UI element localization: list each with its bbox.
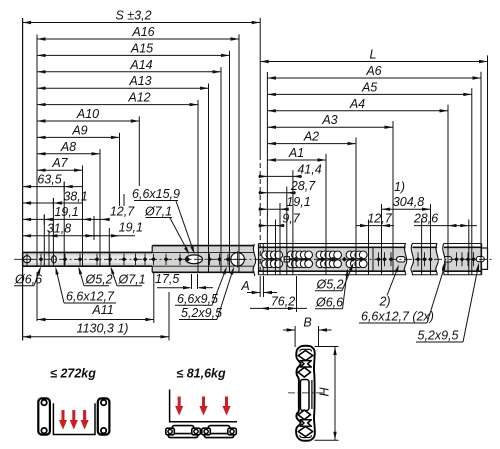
extension line A2 right x356: [355, 137, 357, 274]
ball bearing capsule 2b: [346, 251, 367, 268]
left icon red arrow 1: [59, 410, 67, 430]
svg-text:6,6x9,5: 6,6x9,5: [177, 292, 218, 306]
svg-text:6,6x12,7 (2x): 6,6x12,7 (2x): [361, 310, 434, 324]
extension line A14 right x221: [220, 67, 222, 272]
dimension 19,1 right stack: [258, 195, 310, 211]
dimension A11: [37, 303, 154, 321]
slot 6,6x15,9 in middle section: [185, 255, 202, 264]
extension line 304,8 right tick x430.5: [430, 204, 432, 275]
extension line 9,7 right x275.5: [275, 220, 277, 275]
section H extension bottom: [315, 439, 339, 441]
rail outer section top edge: [259, 243, 482, 245]
svg-text:A8: A8: [60, 140, 76, 154]
svg-text:A16: A16: [131, 25, 154, 39]
label O7,1 upper with leader to slot hole: [144, 205, 189, 255]
svg-text:6,6x15,9: 6,6x15,9: [132, 187, 180, 201]
dimension 19,1 mid-left: [85, 221, 143, 238]
dimension 17,5 below rail: [155, 272, 213, 289]
dimension A4: [267, 97, 448, 113]
dimension A1: [267, 146, 326, 162]
middle section rivet holes: [151, 254, 230, 265]
right icon red arrow 2: [199, 397, 207, 416]
rail middle section top edge: [152, 245, 254, 247]
rail outer left edge: [258, 244, 260, 275]
hole end circle O6,6 with cross: [22, 253, 33, 265]
svg-text:A2: A2: [303, 130, 319, 144]
rail middle inner line top: [152, 251, 254, 253]
dimension A (gap): [240, 279, 277, 294]
label 6,6x15,9 with leader to slot: [132, 187, 194, 254]
rail capsule terminator x373: [372, 247, 374, 271]
extension tick below rail x153.8: [153, 273, 155, 323]
extension line 28,7 right x286.8: [286, 187, 288, 275]
dimension A3: [267, 113, 393, 129]
section H dimension: [318, 347, 337, 441]
rail left end edge: [22, 252, 24, 266]
extension line 63,5 tick x64.2: [63, 182, 65, 267]
svg-text:Ø5,2: Ø5,2: [85, 273, 113, 287]
rail outer member section (right): [259, 247, 482, 271]
dimension 1130,3 1): [23, 322, 169, 339]
svg-text:9,7: 9,7: [282, 212, 300, 226]
slot 6,6x12,7 at x401: [397, 257, 406, 262]
extension tick below rail x169: [168, 292, 170, 341]
dimension A9: [37, 123, 120, 139]
svg-text:A9: A9: [71, 123, 87, 137]
svg-text:Ø5,2: Ø5,2: [316, 278, 344, 292]
footnote 2) with leader: [378, 265, 399, 309]
rail end lug: [482, 248, 488, 269]
svg-text:31,8: 31,8: [47, 221, 71, 235]
rail left section bottom edge: [23, 265, 153, 267]
rail middle section bottom edge: [152, 271, 254, 273]
left load icon right bracket: [98, 398, 110, 434]
label 6,6x12,7 (2x) with leader: [359, 262, 446, 323]
inner section rivet holes: [39, 254, 148, 265]
svg-text:A12: A12: [127, 91, 150, 105]
extension line A7 right x82.5: [82, 166, 84, 267]
rail outer section bottom edge: [259, 274, 482, 276]
extension line A13 right x208.5: [208, 84, 210, 273]
dimension A16: [37, 25, 239, 41]
svg-text:12,7: 12,7: [367, 212, 392, 226]
svg-text:A7: A7: [51, 156, 68, 170]
extension line x260.2 dashed part: [259, 155, 261, 275]
extension line tick x94: [93, 216, 95, 240]
dimension 19,1 left: [23, 205, 83, 225]
slot 6,6x12,7 at x447.5: [443, 257, 452, 262]
outer member rivet holes: [376, 252, 476, 266]
svg-text:63,5: 63,5: [37, 172, 61, 186]
dimension 28,7: [258, 179, 316, 195]
dimension A10: [37, 107, 139, 123]
extension line 19,1 tick x44.3: [43, 215, 45, 267]
hole O7,1 circle with cross in middle section: [230, 251, 246, 267]
svg-text:Ø6,6: Ø6,6: [315, 296, 343, 310]
dimension 304,8: [382, 195, 431, 211]
extension line rail left end x23: [22, 18, 24, 266]
svg-text:2): 2): [378, 295, 390, 309]
svg-text:A11: A11: [91, 303, 113, 317]
svg-text:A4: A4: [349, 97, 365, 111]
dimension 9,7: [258, 212, 300, 228]
extension line 12,7 left tick x368.5: [368, 220, 370, 275]
svg-text:S ±3,2: S ±3,2: [115, 9, 151, 23]
right icon red arrow 1: [175, 397, 183, 416]
svg-text:6,6x12,7: 6,6x12,7: [66, 290, 115, 304]
cross-section profile: [296, 346, 315, 441]
label 6,6x12,7 with leader: [55, 267, 116, 304]
label 6,6x9,5 with leader: [175, 267, 227, 306]
extension line S right / L left x260.2 solid part: [259, 18, 261, 155]
dimension 63,5: [23, 172, 83, 191]
rail left section top edge: [23, 251, 153, 253]
extension line x37: [36, 35, 38, 267]
rail inner member section (left): [23, 252, 153, 266]
svg-text:A14: A14: [129, 58, 152, 72]
rail centreline dash-dot: [14, 258, 494, 260]
dimension A2: [267, 130, 356, 146]
extension line below rail x37: [36, 272, 38, 321]
extension line below rail x23: [22, 266, 24, 340]
section H extension top: [315, 346, 339, 348]
ball bearing capsule 1b: [287, 251, 312, 268]
svg-text:19,1: 19,1: [54, 205, 78, 219]
svg-text:28,7: 28,7: [290, 179, 316, 193]
extension line A4 right x448: [447, 105, 449, 275]
rail member edge inside outer section x263.2: [262, 244, 264, 275]
rail break at x409: [404, 243, 413, 276]
ball bearing capsule 1a: [262, 251, 283, 268]
dimension L: [260, 48, 487, 64]
label O6,6 right with leader: [315, 268, 348, 309]
extension line A5 right x471.8: [471, 88, 473, 275]
rail middle inner line bottom: [152, 265, 254, 267]
svg-text:≤ 272kg: ≤ 272kg: [50, 367, 96, 381]
svg-text:12,7: 12,7: [110, 205, 135, 219]
extension ticks for A gap: [259, 276, 261, 297]
dimension 28,6: [413, 212, 477, 228]
extension line 31,8 tick x49: [48, 231, 50, 266]
dimension A8: [37, 140, 100, 156]
extension line A12 right x198: [197, 100, 199, 272]
svg-text:19,1: 19,1: [119, 221, 143, 235]
left load icon left bracket: [38, 398, 50, 434]
left icon red arrow 3: [81, 410, 89, 430]
extension line 28,6 right tick x468.8: [468, 220, 470, 275]
label 5,2x9,5 left with leader: [179, 267, 234, 320]
svg-text:28,6: 28,6: [413, 212, 438, 226]
svg-text:5,2x9,5: 5,2x9,5: [181, 306, 222, 320]
svg-text:H: H: [318, 387, 332, 397]
svg-text:A15: A15: [130, 41, 153, 55]
dimension 38,1: [23, 189, 88, 208]
extension line 304,8 left tick x381.5: [381, 204, 383, 275]
rail middle section left edges: [151, 246, 153, 253]
bearing square window: [284, 257, 289, 262]
dimension 41,4: [258, 162, 321, 178]
svg-text:1130,3 1): 1130,3 1): [77, 322, 129, 336]
dimension A14: [37, 58, 221, 74]
diamond dot between capsule 2a 2b: [342, 257, 347, 262]
extension tick x124: [123, 194, 125, 206]
rail outer inner line bottom: [259, 270, 482, 272]
svg-text:1): 1): [394, 180, 405, 194]
dimension 31,8: [23, 221, 100, 240]
dimension A13: [37, 74, 209, 90]
right icon red arrow 3: [222, 397, 230, 416]
rail middle member section: [152, 246, 254, 273]
dimension 12,7 right (outside arrows): [356, 212, 394, 228]
rail inner member centre strip: [23, 255, 153, 263]
extension line L right x487.5: [487, 55, 489, 248]
rail outer inner line top: [259, 246, 482, 248]
rail outer right end edge: [481, 244, 483, 275]
svg-text:41,4: 41,4: [297, 162, 321, 176]
extension line 38,1 tick x53.4: [52, 198, 54, 266]
extension line 41,4 right x292.9: [292, 170, 294, 275]
extension tick x296.5 below rail: [296, 276, 298, 312]
svg-text:17,5: 17,5: [155, 272, 179, 286]
left load icon U channel: [53, 403, 95, 434]
right load icon bracket 1: [166, 426, 201, 438]
extension line A8 right x100: [99, 149, 101, 266]
dimension A12: [37, 91, 198, 107]
svg-text:38,1: 38,1: [63, 189, 87, 203]
svg-text:≤ 81,6kg: ≤ 81,6kg: [176, 367, 226, 381]
extension line A-dims left x267.4: [266, 72, 268, 275]
dimension S +-3,2: [23, 9, 261, 25]
svg-text:A10: A10: [76, 107, 99, 121]
left icon red arrow 2: [70, 410, 78, 430]
svg-text:A5: A5: [361, 80, 377, 94]
right load icon bracket 2: [202, 426, 237, 438]
svg-text:Ø7,1: Ø7,1: [144, 205, 172, 219]
right load icon angle: [170, 390, 237, 422]
label O6,6 with leader: [14, 266, 42, 286]
svg-text:A6: A6: [365, 64, 381, 78]
dimension A7: [37, 156, 83, 172]
label O5,2 with leader: [79, 266, 113, 286]
extension line A9 right x119.5: [119, 133, 121, 206]
extension line 19,1 right x280: [279, 203, 281, 275]
extension line A15 right x229.5: [229, 51, 231, 273]
svg-text:Ø7,1: Ø7,1: [118, 273, 146, 287]
label O7,1 lower with leader: [111, 266, 146, 286]
dimension A5: [267, 80, 471, 96]
extension line A6 right x481: [480, 72, 482, 275]
slot hole at x54: [52, 256, 57, 263]
extension line A16 right x239: [238, 34, 240, 272]
ball bearing capsule 2a: [316, 251, 341, 268]
rail break curve at x254.5: [253, 244, 256, 276]
slot 5,2x9,5 at x480: [476, 257, 484, 262]
section B dimension: [283, 316, 332, 348]
svg-text:B: B: [303, 316, 311, 330]
extension line A3 right x393: [392, 121, 394, 275]
svg-text:L: L: [370, 48, 377, 62]
dimension 76,2: [250, 294, 307, 310]
extension line A1 right x326: [325, 154, 327, 275]
svg-text:304,8: 304,8: [393, 195, 424, 209]
svg-text:A3: A3: [321, 113, 337, 127]
dimension A15: [37, 41, 230, 57]
dimension A6: [267, 64, 481, 80]
section centreline: [288, 392, 324, 394]
svg-text:5,2x9,5: 5,2x9,5: [418, 329, 459, 343]
extension line A10 right x139.3: [138, 116, 140, 186]
svg-text:A1: A1: [288, 146, 304, 160]
extension line tick x109.3: [108, 228, 110, 266]
extension tick x421.6: [421, 220, 423, 275]
label O5,2 right with leader: [315, 263, 354, 292]
svg-text:19,1: 19,1: [286, 195, 310, 209]
rail break at x440.5: [436, 243, 445, 276]
svg-text:A: A: [240, 279, 249, 293]
svg-text:76,2: 76,2: [271, 294, 295, 308]
svg-text:A13: A13: [128, 74, 151, 88]
dimension 12,7 mid-left: [81, 205, 135, 222]
label 5,2x9,5 right with leader: [416, 263, 479, 343]
